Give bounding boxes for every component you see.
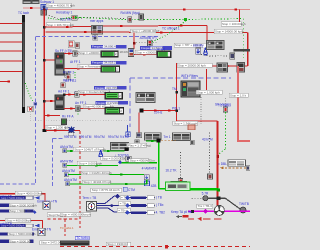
node blue diamond D [144,175,149,180]
wire red dashed vertical x80 [79,131,81,228]
svg-text:999 kTM: 999 kTM [64,135,77,139]
label box Stop 3472 [40,241,62,245]
node cluster C2 [173,133,191,141]
svg-text:Keep TA pil fan: Keep TA pil fan [171,210,193,214]
grow C: label box [77,161,102,165]
row1: gain icon on wire [73,51,78,56]
svg-text:TC hwy: TC hwy [218,103,229,107]
row4: frequency bar 4 [95,101,128,105]
node stability icon [196,48,201,54]
svg-text:Stop = 306.78 kmph: Stop = 306.78 kmph [47,23,74,27]
wire black dotted stub bl [192,197,203,199]
structure case dashed rect C top [52,138,63,140]
G1 label box [15,191,43,195]
grow B: label box right [129,159,156,163]
row2: label box [77,65,106,69]
svg-text:10 Hz: 10 Hz [154,110,163,114]
row3: gain icon on wire [75,92,80,97]
svg-text:| TBx: | TBx [156,203,164,207]
svg-text:TC tach: TC tach [18,11,29,15]
svg-text:Stop = 1,000 kph: Stop = 1,000 kph [197,90,220,94]
svg-text:| TB: | TB [156,195,162,199]
node MW Nyq icon [128,17,132,23]
wire red dashed horizontal y214 [64,213,80,215]
node block far right y63 [237,63,245,73]
row1: red wire [64,53,101,55]
svg-text:TW/TB: TW/TB [239,202,249,206]
wire left red stub short [0,81,9,83]
svg-text:42B: 42B [151,184,157,188]
label box Stop 306 [46,23,74,27]
label box Stop SeTrust [47,213,64,217]
wire green dotted diagonal to top [152,21,186,43]
wire black dotted mid [136,42,158,44]
G1 row a slider [0,196,33,200]
label box Stop +600 [60,213,91,217]
label box on mid lower wire [135,50,160,54]
node TC turbo box [75,236,89,240]
wire blue vertical x127.6 [127,125,129,132]
wire navy branch top [97,196,118,203]
row2: red wire [64,68,101,70]
node DAQ vertical array bar [22,15,25,113]
svg-text:TC offroad 1: TC offroad 1 [162,26,180,30]
node cluster block mid-green [111,143,129,151]
svg-text:Stop = 43004/73 m: Stop = 43004/73 m [130,159,156,163]
node cluster C1 [145,133,162,141]
node converter icon x131 [128,49,134,57]
node fan icon [214,205,224,215]
wire green vertical long x158.7 [158,142,160,189]
grow A: green wire y151 [67,150,125,152]
label box Stop 1930 [106,242,128,246]
node black terminal x44 y130 [43,129,47,132]
node red diamond on bottom dashes [165,245,168,248]
wire left red stub 4 [0,50,22,52]
node express VI fairlane [92,26,103,35]
node blue plus icon [126,132,131,137]
node multiply star icon [68,126,76,134]
row4: LED indicator [105,107,124,114]
label box TB z [117,208,130,212]
svg-text:5.7R: 5.7R [202,191,209,195]
node amplitude A icon mid [99,150,103,157]
svg-text:99 kTM: 99 kTM [108,135,119,139]
svg-text:16.2 TK: 16.2 TK [165,169,177,173]
wire dotted diagonal right [201,55,228,57]
node blue dot row c [33,210,37,214]
node green history block [166,182,191,190]
node junction green-red [217,189,220,192]
svg-text:stability: stability [193,43,204,47]
node cluster bottom-right of center [171,181,187,187]
svg-text:34,018.2: 34,018.2 [104,61,116,65]
node multiply X2 block [38,228,45,235]
svg-text:Au tops(TF): Au tops(TF) [140,36,157,40]
svg-text:⊞ y(t): ⊞ y(t) [157,47,165,51]
wire red mid lower y54.3 [134,53,157,55]
svg-text:Stop = 0.000 mph: Stop = 0.000 mph [78,161,102,165]
svg-text:At FF 1: At FF 1 [70,60,81,64]
row4: label box [83,105,114,109]
node cluster right y63 [217,63,228,72]
G1 row b slider [0,203,37,207]
node Rx FF 2b icon [66,75,71,80]
svg-text:gain+TN: gain+TN [0,222,13,226]
node round gray node left [203,196,208,201]
node multiply X1 block [43,202,50,209]
wire red vertical x247.7 [247,32,249,66]
svg-text:Horsebay 1: Horsebay 1 [56,11,73,15]
node star sub box [69,133,74,136]
bottom-mid slider row 2 [125,203,155,208]
node magenta diamond 1 [203,209,208,214]
junction on x217.5 [216,155,219,158]
wire orange dashed to C2 [161,139,176,141]
node left arrow icon [176,215,182,218]
wire green dots row4 down [77,111,79,116]
node Rx FF A icon [61,119,67,125]
svg-text:Tm 1: Tm 1 [163,135,170,139]
node dark bar right edge [233,49,250,52]
G1 row c slider [0,209,33,213]
wire red vertical x239.6 top [239,9,241,22]
svg-text:4. TB2: 4. TB2 [156,210,166,214]
wire branch y115 right [44,114,60,116]
bottom-mid slider row 3 [125,210,155,215]
node salmon block [188,125,195,130]
row-mid: frequency bar center [140,46,172,50]
wire red center y110.5 [144,110,177,112]
svg-text:Stop = 5000.000kph: Stop = 5000.000kph [10,203,37,207]
wire black bent right [208,198,241,209]
node Rx FF 2 icon [65,72,70,78]
svg-text:Rd MW (Nyq): Rd MW (Nyq) [121,11,140,15]
svg-text:TC turbo: TC turbo [76,236,89,240]
wire branch y101 right [44,100,56,102]
structure case dashed rect A top [36,35,160,37]
G1 wire red top [0,194,45,202]
grow B: label box left [101,157,127,161]
node A-icon block [41,5,47,10]
wire red vertical x206 short [206,69,208,90]
junction arrows on top wire [30,7,33,9]
node round gray node right [240,207,246,213]
wire red vertical x238 right [238,66,250,141]
svg-text:34,090.4: 34,090.4 [104,45,116,49]
svg-text:Stop = 14000.00 kph: Stop = 14000.00 kph [215,30,243,34]
node blue anchor on dash [34,102,38,106]
node W/Tk express block [181,81,200,97]
svg-text:gain+TN: gain+TN [0,194,13,198]
node top terminal B [32,0,39,4]
wire green horizontal long y188.8 [159,188,219,190]
wire red drop x134 [133,32,135,49]
label box Stop 100 right [221,22,246,26]
wire gray dotted from W/Tk down [200,97,202,126]
wire red dashed very bottom [60,246,250,248]
node left express block rows12 [55,53,64,75]
wire left red stub 3 [0,41,22,43]
wire red P drop to cluster [206,26,208,41]
node gauge icon under A [41,10,47,15]
svg-text:Stop = 5000.000kph: Stop = 5000.000kph [9,232,36,236]
wire red vertical center x176.5 [176,63,178,121]
svg-text:Rx FF 1: Rx FF 1 [63,78,75,82]
node navy dot mid [110,204,113,207]
wire red y121 to right [177,120,218,122]
row2: frequency bar 2 [91,61,127,65]
svg-text:mer apps: mer apps [90,19,104,23]
G1 arrow a [35,196,40,200]
wire branch y130 right [46,129,80,131]
node top terminal A [23,0,31,4]
wire left red stub 5 [0,60,22,62]
svg-text:Stop = 20000.00 kph: Stop = 20000.00 kph [178,63,206,67]
wire red right row y66 [212,65,248,67]
svg-text:CTM: CTM [128,188,135,192]
wire green dotted vertical right [242,19,244,60]
structure case dashed rect A left [35,36,37,184]
G2 row a slider [0,224,33,228]
G2 wire red top [0,221,42,229]
wire green bottom right y190 [190,189,218,191]
node multiply X red icon [28,106,33,111]
wire black dotted vertical x180 [179,152,181,179]
node black dot left end magenta [191,210,194,213]
svg-text:Stop = 014/01.40/mph: Stop = 014/01.40/mph [82,171,112,175]
svg-text:AM=kTM: AM=kTM [60,145,73,149]
wire branch y60 right [44,59,63,61]
node black terminal center [140,109,144,113]
svg-text:AM=kTM: AM=kTM [64,178,77,182]
svg-text:99 kTM: 99 kTM [94,135,105,139]
svg-text:Tern = TB: Tern = TB [82,196,96,200]
label box Stop 20000 right [177,63,212,67]
wire green dotted long top [80,18,243,20]
svg-text:Stop = 5000.00k: Stop = 5000.00k [10,239,32,243]
wire red vertical trunk x44 [43,9,45,130]
structure case dashed rect D top [130,77,231,79]
node amplitude A icon right [203,47,208,56]
node red chip right [183,215,189,218]
svg-text:AM=kTM: AM=kTM [60,159,73,163]
row4: gain icon on wire [75,106,80,111]
grow E: label box [82,180,111,184]
wire red dashed vertical x65 [64,214,66,236]
wire left red stub 2 [0,32,22,34]
wire green dotted vertical x225 [224,112,226,149]
wire navy branch mid [97,205,119,207]
wire red dashed mid left y218.8 [47,218,80,220]
node black terminal x126 [125,147,129,151]
node top-middle icon [139,14,144,20]
svg-text:Ad FF 1: Ad FF 1 [58,89,70,93]
svg-text:Stop = 40104.07mph: Stop = 40104.07mph [83,180,111,184]
node dark slab [60,241,90,246]
svg-text:Stop = +600.000kmph: Stop = +600.000kmph [61,213,91,217]
grow C: left icon [63,163,67,167]
svg-text:⊥ TO(TM): ⊥ TO(TM) [114,154,129,158]
wire black dotted diagonal top [46,14,125,19]
label box Tra TB-3 [197,204,213,208]
node top small icon r1 [75,43,80,49]
label box Stop 1200 kph [45,126,69,130]
label box Stop 1000 kph [196,90,222,94]
label box Stop 8775 [91,188,122,192]
label box Stop 1344 [173,121,198,125]
row3: LED indicator [105,92,123,99]
grow E: green wire y183.8 [70,183,148,185]
wire left red stub 1 [0,22,22,24]
row1: frequency bar 1 [91,45,127,49]
svg-text:Stop = 1,0 k: Stop = 1,0 k [230,93,247,97]
label box TB x [120,196,130,200]
node black square node x218 [216,196,220,200]
svg-text:Stop = 4000.000kph: Stop = 4000.000kph [16,191,43,195]
row4: red wire [64,107,105,109]
wire black dotted vertical x209 [209,133,211,175]
row1: LED indicator [101,51,119,57]
node small icon with red ring [68,41,74,48]
wire top main red y9 [23,8,250,9]
node green junction [184,18,187,21]
node icon bottom of dotted x209 [208,174,213,179]
svg-text:4=AM/4TE: 4=AM/4TE [142,167,157,171]
label box Stop 787 [174,43,206,47]
svg-text:TC=turbo 1: TC=turbo 1 [60,226,74,230]
bottom-mid slider row 1 [125,195,155,200]
wire red dashed bottom right y218.8 [188,218,222,220]
svg-text:Stop = 5000.00: Stop = 5000.00 [10,209,31,213]
svg-text:An FF 1: An FF 1 [75,101,87,105]
wire green y140.4 into node [146,140,157,142]
node small icon right edge y166 [246,166,250,171]
svg-text:43 kTM: 43 kTM [202,138,213,142]
node red arrow bottom right [197,217,201,221]
node blue diamond B [118,160,122,164]
grow E: left icon [66,182,70,186]
wire gray dotted from X down [29,112,31,121]
grow D: green wire y174.6 [68,174,144,176]
row3: frequency bar 3 [94,86,127,90]
node stop icon x180 [178,179,182,185]
wire left red stub 6 [0,71,22,73]
svg-text:Play = 1 (T=Reg): Play = 1 (T=Reg) [128,144,151,148]
node compass block [87,202,97,212]
structure case dashed rect D left [129,78,131,127]
node center hatch block [136,93,155,103]
node right small icon y140 [190,140,194,145]
node DAQ graph block green [157,51,171,58]
svg-text:Stop = 40000.70 kph: Stop = 40000.70 kph [47,4,75,8]
junction dots on trunk [43,26,45,28]
node orange arrow left end [220,166,224,169]
svg-text:Stop = 8775.46 km/h: Stop = 8775.46 km/h [92,188,120,192]
node navy diamond top [115,194,120,199]
row3: red wire [64,94,105,96]
wire gray dotted horizontal y120.7 [30,120,130,122]
svg-text:W/Tk Filters: W/Tk Filters [181,74,198,78]
G2 label box [5,219,32,223]
wire green dotted from bar down [26,83,34,102]
wire red P y25.5 [44,26,207,27]
svg-text:Su FF (=T5): Su FF (=T5) [55,49,72,53]
wire orange dashed right [221,167,250,169]
G2 row b slider [0,232,36,236]
svg-text:Rx FF 2: Rx FF 2 [63,70,75,74]
svg-text:AM=kTM: AM=kTM [62,169,75,173]
wire green dots row2 down [74,72,76,80]
node black terminal x158 [157,139,161,143]
svg-text:TM: TM [172,87,177,91]
label box Stop 14000 right [214,29,243,33]
label box Stop +20000 kTush (wireQ) [131,29,160,33]
node S-table block right [228,160,246,167]
node Rx FF 1 icon [61,83,66,88]
node green T icon [72,15,78,20]
svg-text:999 kTM: 999 kTM [79,135,92,139]
node CTM icon [123,187,127,191]
row3: label box [78,90,111,94]
structure case dashed rect A bottom [0,183,36,185]
svg-text:9 kTM: 9 kTM [120,135,129,139]
svg-text:PID 1: PID 1 [172,106,180,110]
svg-text:Stop = 1930.04: Stop = 1930.04 [107,242,128,246]
node express VI lower part [93,35,98,41]
wire green dotted curve left [48,18,80,20]
node icon below red drop [136,133,142,138]
label box bottom left of dashes [125,242,131,246]
node left express block rows34 [55,95,64,110]
node icon above play box [135,140,140,144]
svg-text:Tra = TB-3: Tra = TB-3 [198,204,213,208]
grow A: label box [73,147,106,151]
svg-text:Stop = 3472.00: Stop = 3472.00 [41,241,62,245]
node small block under dark bar [230,53,235,59]
wire red Q y32 [46,31,248,33]
G2 arrow a [35,224,40,228]
svg-text:Rx FF A: Rx FF A [62,114,74,118]
node express cluster top-right [207,41,225,50]
svg-text:Stop = 1,200 kph: Stop = 1,200 kph [46,126,69,130]
wire green vertical from diamond D [146,180,148,184]
node stop-sign icon mid [148,40,153,46]
grow D: label box [81,171,112,175]
label box Stop 40000 [46,3,75,8]
junctions on center vertical [175,91,178,94]
grow B: green wire y162.7 [120,162,158,164]
grow A: left icon [63,149,67,153]
wire black dotted x225 upper [224,98,226,107]
label box Stop right edge [229,93,248,97]
svg-text:Stop = +20000.00 kT: Stop = +20000.00 kT [132,29,160,33]
label box TB y [119,201,130,205]
svg-text:= DBL: = DBL [218,162,227,166]
wire red vertical x217.5 long [217,121,219,211]
wire magenta y211.4 [188,210,250,212]
wire green dotted elbow to red vertical [218,149,225,155]
node TLPW small block [126,156,131,161]
wire red vertical into star zone [138,113,140,133]
grow C: green wire y165.3 [67,164,119,166]
label box Play 1 T-Reg [127,143,151,147]
structure case dashed rect C left [51,139,53,188]
grow D: left icon [64,173,68,177]
wire navy branch bottom [97,208,118,212]
row2: LED indicator [101,66,120,73]
G2 row c slider [0,239,33,243]
